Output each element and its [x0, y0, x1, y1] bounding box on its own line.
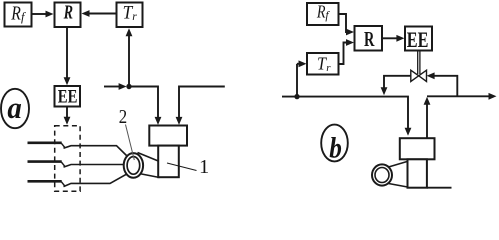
svg-text:R: R [364, 27, 375, 51]
svg-text:a: a [7, 90, 21, 125]
svg-text:EE: EE [407, 27, 429, 52]
svg-text:b: b [329, 132, 342, 165]
svg-text:R: R [63, 3, 73, 24]
svg-text:R: R [316, 1, 325, 21]
svg-text:2: 2 [119, 106, 127, 128]
svg-text:R: R [10, 3, 20, 24]
svg-text:r: r [326, 62, 331, 74]
svg-text:EE: EE [58, 87, 78, 108]
svg-text:r: r [132, 11, 137, 23]
svg-text:1: 1 [199, 156, 209, 178]
